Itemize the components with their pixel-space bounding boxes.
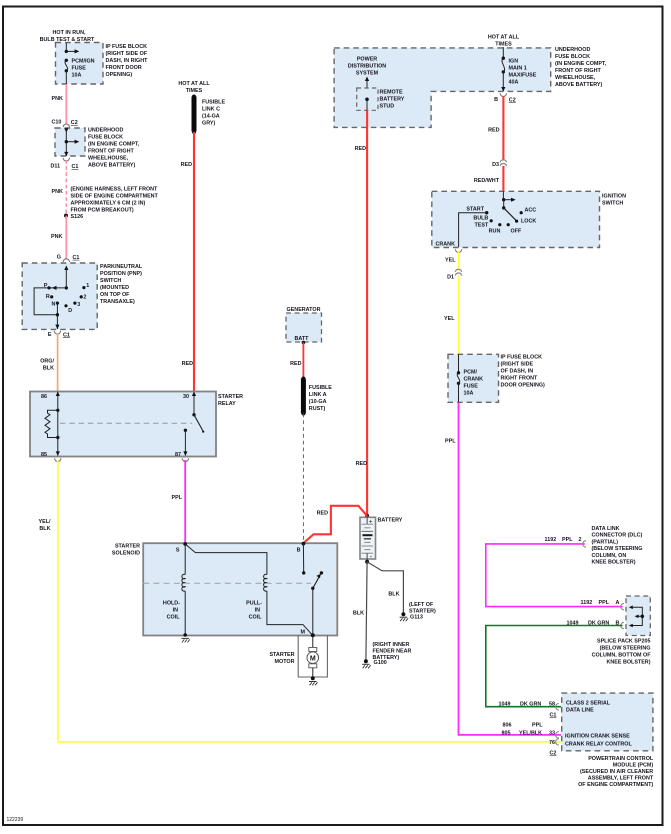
connector arc below underhood box <box>63 158 69 161</box>
svg-text:SWITCH: SWITCH <box>602 201 623 207</box>
ground note left of starter <box>409 602 436 615</box>
svg-text:STARTER: STARTER <box>269 652 294 658</box>
svg-text:(PARTIAL): (PARTIAL) <box>592 539 619 545</box>
wire BLK battery to G100 <box>366 562 367 661</box>
solenoid switch blade and contact <box>311 571 323 590</box>
svg-text:MODULE (PCM): MODULE (PCM) <box>613 762 654 768</box>
PNP N contact branch <box>56 303 58 315</box>
svg-text:D3: D3 <box>492 162 499 168</box>
svg-text:N: N <box>51 302 55 308</box>
svg-text:R: R <box>46 294 50 300</box>
connector arc below ignition switch <box>455 249 461 252</box>
relay pin 85 exit arrow <box>41 438 60 459</box>
svg-text:PULL-: PULL- <box>246 601 262 607</box>
svg-text:YEL: YEL <box>445 258 456 264</box>
svg-text:805: 805 <box>502 731 511 737</box>
svg-text:IP FUSE BLOCK: IP FUSE BLOCK <box>106 44 148 50</box>
svg-text:BLK: BLK <box>39 526 50 532</box>
solenoid S to hold-in coil wire <box>184 544 186 575</box>
splice S126 <box>64 214 83 221</box>
wire PNK dashed harness segment <box>65 160 67 215</box>
svg-text:85: 85 <box>41 452 47 458</box>
svg-text:KNEE BOLSTER): KNEE BOLSTER) <box>606 660 650 666</box>
svg-text:STUD: STUD <box>380 104 395 110</box>
svg-text:(RIGHT INNER: (RIGHT INNER <box>373 642 410 648</box>
svg-text:PNK: PNK <box>52 96 63 102</box>
in-line connector D3 <box>492 160 507 168</box>
svg-text:30: 30 <box>183 394 189 400</box>
dashed wire fusible link A to node B <box>302 414 304 544</box>
svg-text:IN: IN <box>255 608 260 614</box>
svg-text:RED: RED <box>356 461 367 467</box>
svg-text:(SECURED IN AIR CLEANER: (SECURED IN AIR CLEANER <box>580 769 653 775</box>
IP fuse block (top left) box <box>56 43 149 85</box>
svg-text:(RIGHT SIDE OF: (RIGHT SIDE OF <box>106 51 148 57</box>
svg-text:D11: D11 <box>51 164 61 170</box>
svg-text:CRANK: CRANK <box>464 377 484 383</box>
svg-text:DATA LINK: DATA LINK <box>592 526 620 532</box>
connector arc at PNP switch bottom <box>54 331 60 334</box>
ignition switch START to CRANK wire <box>459 213 487 247</box>
svg-text:POWERTRAIN CONTROL: POWERTRAIN CONTROL <box>588 756 654 762</box>
svg-text:COLUMN, BOTTOM OF: COLUMN, BOTTOM OF <box>592 653 652 659</box>
wire YEL ignition switch to connector D1 <box>458 251 460 271</box>
svg-text:LINK C: LINK C <box>202 107 220 113</box>
svg-text:COLUMN, ON: COLUMN, ON <box>592 553 627 559</box>
wire into IP fuse block <box>65 43 67 51</box>
hold-in coil <box>163 574 185 620</box>
svg-text:C1: C1 <box>550 713 557 719</box>
svg-text:YEL/BLK: YEL/BLK <box>519 731 542 737</box>
relay pin 86 <box>41 392 60 411</box>
svg-text:CONNECTOR (DLC): CONNECTOR (DLC) <box>592 533 643 539</box>
wire PPL DLC branch <box>486 544 623 607</box>
DLC connector arc <box>583 541 586 547</box>
svg-text:58: 58 <box>549 702 555 708</box>
svg-text:D: D <box>68 308 72 314</box>
wire ORG/BLK PNP to starter relay <box>57 334 59 392</box>
svg-text:FRONT OF RIGHT: FRONT OF RIGHT <box>555 68 602 74</box>
underhood fuse block text (right) <box>555 47 607 88</box>
IP fuse block (PCM/CRANK) box <box>448 354 545 402</box>
svg-text:ASSEMBLY, LEFT FRONT: ASSEMBLY, LEFT FRONT <box>588 776 654 782</box>
svg-text:G113: G113 <box>410 615 423 621</box>
exit arrow at underhood box bottom <box>64 152 68 156</box>
wire PPL fuse to PCM ignition crank sense <box>459 402 562 735</box>
connector C10 / C2 labels <box>52 120 78 127</box>
svg-text:DISTRIBUTION: DISTRIBUTION <box>348 64 386 70</box>
svg-text:GRY): GRY) <box>202 121 215 127</box>
generator box <box>286 307 322 344</box>
remote battery stud box <box>357 88 405 110</box>
svg-text:HOT AT ALL: HOT AT ALL <box>178 81 210 87</box>
svg-text:LINK A: LINK A <box>309 392 327 398</box>
svg-text:76: 76 <box>549 740 555 746</box>
solenoid S terminal <box>176 542 187 553</box>
svg-text:ON TOP OF: ON TOP OF <box>100 292 130 298</box>
wire fuse to box edge <box>65 71 67 84</box>
svg-text:HOLD-: HOLD- <box>163 601 180 607</box>
svg-text:IN: IN <box>173 608 178 614</box>
PNP output node <box>56 313 59 316</box>
PNP wiper to P contact with arrow <box>49 286 66 290</box>
svg-text:RED: RED <box>355 146 366 152</box>
svg-text:MAIN 1: MAIN 1 <box>509 66 527 72</box>
PCM connector arc pin 76 <box>556 739 559 745</box>
underhood fuse block box (left) <box>55 128 140 169</box>
svg-text:FRONT DOOR: FRONT DOOR <box>106 65 142 71</box>
ground G100 <box>362 659 387 668</box>
svg-text:1: 1 <box>86 283 89 289</box>
svg-text:STARTER: STARTER <box>218 394 243 400</box>
svg-text:RUN: RUN <box>489 229 501 235</box>
svg-text:COIL: COIL <box>167 615 181 621</box>
svg-text:YEL: YEL <box>444 316 455 322</box>
svg-text:BATTERY): BATTERY) <box>373 655 400 661</box>
svg-text:RED: RED <box>317 511 328 517</box>
svg-text:REMOTE: REMOTE <box>380 90 403 96</box>
wire DK GRN splice pack to PCM <box>486 626 623 707</box>
svg-text:GENERATOR: GENERATOR <box>287 307 321 313</box>
connector arc at underhood box top <box>63 124 69 127</box>
connector arc below maxifuse <box>500 93 506 96</box>
label ORG/BLK <box>40 359 54 372</box>
svg-text:WHEELHOUSE,: WHEELHOUSE, <box>555 75 596 81</box>
splice pack connector arc A <box>621 603 624 609</box>
svg-text:D1: D1 <box>447 275 454 281</box>
node and tap arrow in IP fuse block <box>65 49 80 53</box>
svg-text:3: 3 <box>77 302 80 308</box>
connector arc below relay pin 87 <box>182 458 188 461</box>
svg-text:DOOR OPENING): DOOR OPENING) <box>501 383 546 389</box>
svg-text:B: B <box>494 97 498 103</box>
svg-text:CLASS 2 SERIAL: CLASS 2 SERIAL <box>566 701 611 707</box>
svg-text:C1: C1 <box>72 164 79 170</box>
svg-text:(ENGINE HARNESS, LEFT FRONT: (ENGINE HARNESS, LEFT FRONT <box>71 187 159 193</box>
labels 806 PPL 33 <box>503 723 556 737</box>
solenoid S to pull-in coil wire <box>185 544 267 575</box>
svg-text:40A: 40A <box>509 80 519 86</box>
svg-text:KNEE BOLSTER): KNEE BOLSTER) <box>592 560 636 566</box>
wire YEL/BLK relay 85 down and across to PCM <box>58 460 561 742</box>
svg-text:SPLICE PACK SP205: SPLICE PACK SP205 <box>597 639 651 645</box>
starter motor <box>269 635 318 677</box>
svg-text:C10: C10 <box>52 120 62 126</box>
svg-text:LOCK: LOCK <box>521 219 536 225</box>
svg-text:POWER: POWER <box>357 57 377 63</box>
maxifuse exit arrow <box>501 72 505 92</box>
wire RED maxifuse to connector D3 <box>502 97 504 161</box>
svg-text:2: 2 <box>83 295 86 301</box>
arrow up to system label <box>365 77 369 89</box>
solenoid switch to M terminal wire <box>312 588 314 635</box>
svg-text:COIL: COIL <box>249 615 263 621</box>
svg-text:IGNITION: IGNITION <box>602 194 626 200</box>
svg-text:PPL: PPL <box>445 439 456 445</box>
starter relay box <box>30 392 243 457</box>
svg-text:C2: C2 <box>509 97 516 103</box>
harness note text <box>71 187 159 214</box>
labels 805 YEL/BLK 76 <box>502 731 556 747</box>
ignition switch box <box>432 191 626 247</box>
PCM connector arc pin 33 <box>556 732 559 738</box>
ignition switch blade to LOCK <box>504 208 517 221</box>
svg-text:PPL: PPL <box>562 537 573 543</box>
svg-text:FENDER NEAR: FENDER NEAR <box>373 649 412 655</box>
splice pack SP205 box <box>592 596 652 666</box>
svg-text:DASH, IN RIGHT: DASH, IN RIGHT <box>106 58 149 64</box>
svg-text:33: 33 <box>549 731 555 737</box>
svg-text:CRANK: CRANK <box>436 242 456 248</box>
svg-text:1192: 1192 <box>545 537 557 543</box>
svg-text:RED: RED <box>182 361 193 367</box>
solenoid internal ground <box>181 633 190 642</box>
wire RED generator to fusible link A <box>302 343 304 379</box>
ignition switch feed node and tap arrow <box>502 191 516 209</box>
relay dashed actuation line <box>60 422 192 424</box>
svg-text:1049: 1049 <box>499 702 511 708</box>
wire RED fusible link C to relay 30 <box>193 132 195 391</box>
svg-text:MOTOR: MOTOR <box>275 659 295 665</box>
relay pin 30 <box>183 392 196 417</box>
PCM connector arc pin 58 <box>556 704 559 710</box>
svg-text:RIGHT FRONT: RIGHT FRONT <box>501 376 539 382</box>
svg-text:FUSIBLE: FUSIBLE <box>202 100 225 106</box>
svg-text:(LEFT OF: (LEFT OF <box>409 602 434 608</box>
svg-text:PPL: PPL <box>599 600 610 606</box>
battery <box>360 514 403 564</box>
splice pack connector arc B <box>621 622 624 628</box>
svg-text:DK GRN: DK GRN <box>520 702 541 708</box>
svg-text:122239: 122239 <box>7 817 24 823</box>
svg-text:FUSE: FUSE <box>72 66 87 72</box>
svg-text:BLK: BLK <box>43 366 54 372</box>
labels 1192 PPL A <box>581 600 620 606</box>
svg-text:C2: C2 <box>71 120 78 126</box>
svg-text:1192: 1192 <box>581 600 593 606</box>
svg-text:ABOVE BATTERY): ABOVE BATTERY) <box>555 82 603 88</box>
park/neutral position (PNP) switch box <box>22 263 143 329</box>
svg-text:RELAY: RELAY <box>218 401 236 407</box>
svg-text:FUSE BLOCK: FUSE BLOCK <box>88 135 123 141</box>
wire PNK IP fuse block to underhood fuse block <box>65 84 67 125</box>
svg-text:C1: C1 <box>73 255 80 261</box>
svg-text:B: B <box>297 548 301 554</box>
svg-text:IGN: IGN <box>509 59 519 65</box>
starter solenoid box <box>112 543 337 635</box>
svg-text:(BELOW STEERING: (BELOW STEERING <box>600 646 651 652</box>
svg-text:10A: 10A <box>464 391 474 397</box>
svg-text:OF DASH, IN: OF DASH, IN <box>501 369 534 375</box>
svg-text:UNDERHOOD: UNDERHOOD <box>88 128 123 134</box>
svg-text:RED: RED <box>488 128 499 134</box>
svg-text:PPL: PPL <box>532 723 543 729</box>
feed label HOT AT ALL TIMES (right) <box>488 35 520 48</box>
PCM caption <box>578 756 654 788</box>
svg-text:START: START <box>466 207 484 213</box>
svg-text:OF ENGINE COMPARTMENT): OF ENGINE COMPARTMENT) <box>578 782 653 788</box>
data link connector text <box>592 526 643 566</box>
svg-text:APPROXIMATELY 6 CM (2 IN): APPROXIMATELY 6 CM (2 IN) <box>71 201 146 207</box>
svg-text:FROM PCM BREAKOUT): FROM PCM BREAKOUT) <box>71 208 134 214</box>
svg-text:WHEELHOUSE,: WHEELHOUSE, <box>88 156 129 162</box>
PNP entry arrow <box>64 266 68 288</box>
node and tap arrow in underhood fuse block <box>65 140 80 144</box>
svg-text:TRANSAXLE): TRANSAXLE) <box>100 299 135 305</box>
svg-text:BATT: BATT <box>295 336 310 342</box>
label YEL/BLK <box>39 519 51 532</box>
svg-text:RUST): RUST) <box>309 406 326 412</box>
svg-text:BATTERY: BATTERY <box>380 97 405 103</box>
solenoid dashed actuation line <box>143 582 311 584</box>
svg-text:FUSE BLOCK: FUSE BLOCK <box>555 54 590 60</box>
svg-text:(RIGHT SIDE: (RIGHT SIDE <box>501 362 534 368</box>
svg-text:TIMES: TIMES <box>186 88 203 94</box>
svg-text:TIMES: TIMES <box>495 42 512 48</box>
svg-text:CRANK RELAY CONTROL: CRANK RELAY CONTROL <box>565 742 632 748</box>
svg-text:FUSE: FUSE <box>464 384 479 390</box>
svg-text:STARTER: STARTER <box>115 544 140 550</box>
svg-text:(BELOW STEERING: (BELOW STEERING <box>592 546 643 552</box>
svg-text:RED: RED <box>290 361 301 367</box>
wire PNK splice to PNP switch <box>65 216 67 259</box>
fuse PCM/IGN 10A <box>65 59 95 79</box>
fusible link A <box>301 377 332 416</box>
svg-text:FUSIBLE: FUSIBLE <box>309 385 332 391</box>
svg-text:2: 2 <box>579 537 582 543</box>
ground note right inner fender <box>373 642 412 661</box>
solenoid B terminal <box>297 542 306 554</box>
labels 1049 DK GRN B <box>567 621 620 627</box>
svg-text:HOT IN RUN,: HOT IN RUN, <box>53 30 86 36</box>
labels 1192 PPL 2 <box>545 537 582 543</box>
feed label HOT IN RUN <box>40 30 95 43</box>
svg-text:A: A <box>616 600 620 606</box>
svg-text:PPL: PPL <box>172 495 183 501</box>
connector arc below relay pin 85 <box>55 458 61 461</box>
svg-text:C1: C1 <box>63 332 70 338</box>
svg-text:SWITCH: SWITCH <box>100 278 121 284</box>
svg-text:ORG/: ORG/ <box>40 359 54 365</box>
PNP common node <box>65 286 68 289</box>
svg-text:G: G <box>57 255 61 261</box>
svg-text:(10-GA: (10-GA <box>309 399 327 405</box>
wire PPL relay 87 to starter solenoid S <box>184 460 186 543</box>
svg-text:BATTERY: BATTERY <box>378 518 403 524</box>
svg-text:ABOVE BATTERY): ABOVE BATTERY) <box>88 163 136 169</box>
svg-text:PCM/IGN: PCM/IGN <box>72 59 95 65</box>
svg-text:(IN ENGINE COMPT,: (IN ENGINE COMPT, <box>555 61 607 67</box>
svg-text:ACC: ACC <box>525 208 537 214</box>
pull-in coil <box>246 574 267 620</box>
svg-text:PNK: PNK <box>51 234 62 240</box>
svg-text:87: 87 <box>175 452 181 458</box>
svg-text:S: S <box>176 548 180 554</box>
fuse IGN MAIN 1 MAXIFUSE 40A <box>502 47 537 86</box>
fuse PCM/CRANK 10A <box>457 354 483 402</box>
hold-in coil to ground wire <box>184 591 186 635</box>
svg-text:PCM/: PCM/ <box>464 370 478 376</box>
connector D11 / C1 labels <box>51 164 79 171</box>
PNP internal wire P to output <box>34 288 57 315</box>
svg-text:IP FUSE BLOCK: IP FUSE BLOCK <box>501 355 543 361</box>
relay switch blade <box>194 415 204 433</box>
svg-text:RED: RED <box>181 162 192 168</box>
svg-text:OPENING): OPENING) <box>106 72 133 78</box>
svg-text:SIDE OF ENGINE COMPARTMENT: SIDE OF ENGINE COMPARTMENT <box>71 194 159 200</box>
svg-text:86: 86 <box>41 394 47 400</box>
svg-text:UNDERHOOD: UNDERHOOD <box>555 47 590 53</box>
svg-text:RED/WHT: RED/WHT <box>474 178 500 184</box>
wire BLK battery to G113 <box>367 562 403 614</box>
wire RED battery to solenoid B <box>303 506 367 543</box>
in-line connector D1 <box>447 269 462 280</box>
svg-text:BLK: BLK <box>353 611 364 617</box>
svg-text:C2: C2 <box>550 751 557 757</box>
relay coil with parallel resistor <box>45 409 60 440</box>
wire YEL connector D1 to PCM/CRANK fuse <box>458 276 460 355</box>
PCM box <box>562 693 653 751</box>
PNP position contacts and labels <box>44 283 89 314</box>
solenoid M terminal <box>301 630 315 638</box>
svg-text:YEL/: YEL/ <box>39 519 51 525</box>
svg-text:M: M <box>310 655 316 662</box>
svg-text:PARK/NEUTRAL: PARK/NEUTRAL <box>100 264 143 270</box>
svg-text:OFF: OFF <box>511 229 522 235</box>
fusible link C <box>192 95 226 135</box>
splice pack internal bus <box>629 606 644 628</box>
connector E / C1 labels <box>48 332 70 338</box>
svg-text:806: 806 <box>503 723 512 729</box>
svg-text:MAXIFUSE: MAXIFUSE <box>509 73 537 79</box>
wire RED/WHT connector D3 to ignition switch <box>502 166 504 191</box>
pull-in coil to M wire <box>267 591 313 635</box>
PNP exit arrow <box>55 315 59 329</box>
svg-text:SOLENOID: SOLENOID <box>112 551 140 557</box>
wire through underhood fuse block <box>64 128 68 156</box>
svg-text:(MOUNTED: (MOUNTED <box>100 285 129 291</box>
svg-text:DATA LINE: DATA LINE <box>566 708 594 714</box>
ground G113 <box>400 612 423 621</box>
svg-text:S126: S126 <box>71 214 84 220</box>
feed label HOT AT ALL TIMES (left) <box>178 81 210 94</box>
svg-text:IGNITION CRANK SENSE: IGNITION CRANK SENSE <box>565 733 630 739</box>
starter motor ground <box>309 676 318 685</box>
svg-text:BLK: BLK <box>388 592 399 598</box>
svg-text:SYSTEM: SYSTEM <box>356 71 379 77</box>
connector B / C2 labels <box>494 97 516 103</box>
svg-text:PNK: PNK <box>52 189 63 195</box>
labels 1049 DK GRN 58 <box>499 702 556 708</box>
svg-text:(IN ENGINE COMPT,: (IN ENGINE COMPT, <box>88 142 140 148</box>
svg-text:POSITION (PNP): POSITION (PNP) <box>100 271 142 277</box>
ignition switch position contacts <box>466 207 536 235</box>
svg-text:STARTER): STARTER) <box>409 608 436 614</box>
solenoid B contact wire <box>302 544 305 575</box>
svg-text:10A: 10A <box>72 73 82 79</box>
svg-text:FRONT OF RIGHT: FRONT OF RIGHT <box>88 149 135 155</box>
svg-text:TEST: TEST <box>475 223 489 229</box>
svg-text:BULB: BULB <box>473 216 488 222</box>
svg-text:E: E <box>48 332 52 338</box>
starter motor bracket <box>298 636 327 678</box>
relay pin 87 <box>175 429 188 458</box>
connector G / C1 labels <box>57 255 80 261</box>
connector arc at PNP switch top <box>63 259 69 262</box>
svg-text:HOT AT ALL: HOT AT ALL <box>488 35 520 41</box>
wire RED remote battery stud to battery <box>366 99 368 515</box>
svg-text:(14-GA: (14-GA <box>202 114 220 120</box>
